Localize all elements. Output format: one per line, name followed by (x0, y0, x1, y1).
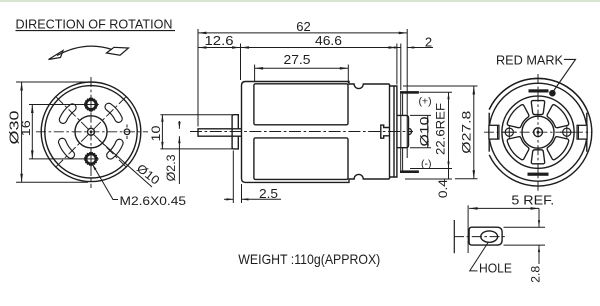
rear centerlines (484, 74, 592, 192)
svg-text:2.8: 2.8 (529, 265, 543, 282)
dimension Ø27.8 (403, 86, 478, 179)
dimension 16 (29, 105, 84, 159)
svg-text:10: 10 (149, 125, 163, 141)
curved rotation arrow (49, 46, 129, 59)
rear boss circle (522, 116, 554, 148)
red mark dot (549, 90, 556, 97)
label Ø10 with leader (99, 140, 152, 187)
tab hole (481, 231, 498, 242)
mounting tab detail view (454, 220, 502, 253)
dimension 27.5 (255, 67, 349, 69)
dimension 10 (bushing) (160, 115, 232, 149)
rear screw holes with cross (505, 128, 513, 136)
lamination window lower (254, 138, 348, 180)
dimension 22.6REF (410, 92, 452, 179)
svg-text:62: 62 (296, 19, 311, 34)
svg-text:Ø10: Ø10 (417, 116, 431, 146)
side view: motor body (198, 82, 412, 183)
rear face circle (502, 96, 574, 168)
svg-text:RED MARK: RED MARK (496, 53, 564, 67)
dimension 0.4 (405, 178, 452, 180)
terminal (+) tab (400, 91, 419, 94)
dimension 12.6 (198, 47, 241, 49)
dimension Ø10 rear boss (410, 115, 431, 147)
front shaft hole (88, 128, 95, 135)
svg-text:WEIGHT :110g(APPROX): WEIGHT :110g(APPROX) (238, 251, 380, 267)
lamination window upper (254, 84, 348, 125)
case end (crimp) line (389, 84, 391, 179)
extension lines top dims (198, 29, 407, 158)
svg-text:0.4: 0.4 (436, 179, 450, 198)
svg-text:22.6REF: 22.6REF (434, 103, 448, 155)
svg-text:HOLE: HOLE (479, 262, 512, 276)
svg-text:2.5: 2.5 (259, 186, 278, 201)
svg-text:16: 16 (19, 120, 33, 136)
label HOLE with leader (470, 243, 488, 271)
dimension 5 REF. (468, 205, 539, 253)
front small hole right (124, 129, 130, 135)
rear outer circle with side flats (489, 78, 592, 186)
front inner rim circle (45, 86, 137, 178)
dimension 2 (393, 47, 401, 49)
endbell (390, 86, 397, 177)
dimension 2.8 (504, 208, 546, 264)
rear inner rim circle (489, 83, 587, 181)
svg-text:Ø2.3: Ø2.3 (164, 154, 178, 181)
tab body (469, 227, 502, 245)
svg-text:46.6: 46.6 (315, 33, 342, 48)
rear boss (397, 115, 409, 147)
svg-text:2: 2 (425, 35, 432, 50)
side view centerline (190, 131, 413, 133)
shaft (198, 129, 242, 136)
svg-text:DIRECTION OF ROTATION: DIRECTION OF ROTATION (16, 17, 173, 32)
rear side tabs (489, 125, 499, 139)
terminal (-) tab (400, 170, 419, 173)
dimension Ø30 (16, 82, 88, 182)
front outer circle (41, 82, 141, 182)
M2.6 screw hole (84, 98, 98, 112)
rear bearing tab inside case (381, 125, 390, 138)
dimension 46.6 (241, 47, 397, 49)
front vent slots (4 curved slots) (63, 108, 72, 120)
rear shaft circle (534, 128, 543, 137)
tab centerline (454, 236, 507, 238)
svg-text:12.6: 12.6 (205, 33, 234, 48)
svg-text:27.5: 27.5 (284, 52, 311, 67)
M2.6 screw hole (84, 152, 98, 166)
rear vent slots: 2 trapezoid + 4 fan (531, 101, 544, 115)
svg-text:(+): (+) (418, 96, 431, 108)
terminal legs (401, 94, 403, 171)
left end view: motor front face (41, 82, 141, 182)
dimension 62 (198, 32, 407, 34)
label M2.6X0.45 with leader (92, 164, 118, 200)
svg-text:M2.6X0.45: M2.6X0.45 (120, 194, 187, 208)
rear crimp bars (529, 89, 549, 92)
top green border (0, 0, 600, 2)
dimension 2.5 (224, 151, 281, 204)
attachment edge line (453, 220, 455, 253)
rear shaft nub (409, 128, 412, 134)
motor case outline (242, 82, 254, 183)
svg-text:5 REF.: 5 REF. (511, 193, 554, 207)
svg-text:Ø27.8: Ø27.8 (459, 110, 473, 153)
front bushing (232, 115, 238, 149)
rear end view (489, 78, 592, 186)
front centerlines (36, 77, 148, 188)
front center boss circle (75, 116, 107, 148)
dimension Ø2.3 (178, 121, 180, 184)
